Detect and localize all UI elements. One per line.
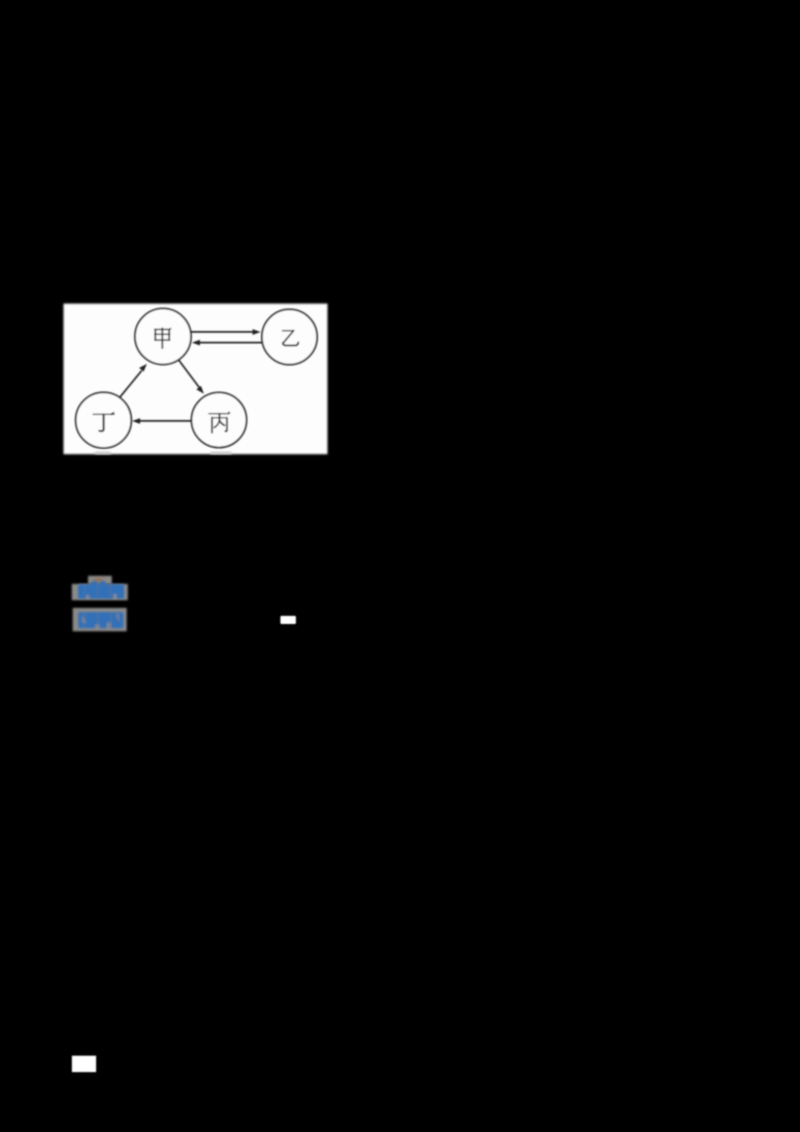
- selection tab above answer label: [88, 576, 112, 584]
- faint cropped-text smudge under 丙: [211, 452, 232, 455]
- arrow 甲→乙 (top line, head at 乙): [191, 329, 260, 335]
- selection bar for 【解析】: [73, 608, 127, 631]
- label 甲 glyph: [155, 328, 171, 348]
- node 甲 circle: [135, 309, 191, 365]
- orange blob inside tab: [93, 577, 104, 582]
- arrow 丁→甲 (head at 甲 lower-left): [120, 364, 147, 398]
- page footer white box: [72, 1056, 96, 1072]
- white answer-blank dash: [280, 616, 296, 624]
- faint cropped-text smudge under 丁: [95, 452, 111, 455]
- selection bar for 【答案】: [72, 584, 128, 600]
- arrow 丙→丁 (head at 丁 right): [132, 418, 191, 424]
- label 乙 glyph: [283, 331, 299, 346]
- node 丙 circle: [192, 393, 247, 448]
- arrow 甲→丙 (head at 丙 upper-left): [179, 360, 204, 394]
- label 丙 glyph: [209, 412, 230, 432]
- node 丁 circle: [76, 392, 132, 448]
- blue 【解析】 text blob: [78, 612, 123, 628]
- node 乙 circle: [262, 309, 317, 364]
- arrow 乙→甲 (bottom line, head at 甲): [192, 340, 262, 346]
- blue 【答案】 text blob: [78, 581, 124, 599]
- label 丁 glyph: [93, 413, 114, 431]
- figure panel: white image box of the exam diagram: [64, 304, 328, 455]
